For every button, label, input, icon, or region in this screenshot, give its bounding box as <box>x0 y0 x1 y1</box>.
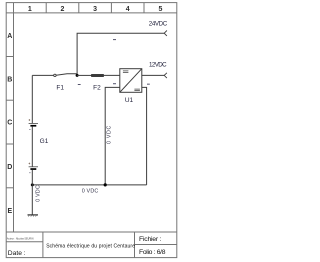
battery cell1 polarity minus <box>29 128 31 130</box>
junction dot <box>76 74 79 77</box>
wire battery to F1 <box>32 74 53 76</box>
svg-text:0 VDC: 0 VDC <box>35 185 41 202</box>
battery cell1 polarity plus <box>29 119 31 121</box>
svg-text:Folio : 6/8: Folio : 6/8 <box>139 249 166 256</box>
battery cell2 polarity minus <box>29 172 31 174</box>
svg-text:24VDC: 24VDC <box>149 21 168 28</box>
svg-text:G1: G1 <box>40 138 49 145</box>
U1 DC glyph bottom-right <box>134 89 140 91</box>
svg-text:2: 2 <box>61 6 65 13</box>
ground <box>28 215 39 217</box>
svg-text:A: A <box>7 33 12 40</box>
svg-text:4: 4 <box>126 6 130 13</box>
svg-text:0 VDC: 0 VDC <box>82 188 99 194</box>
svg-text:E: E <box>7 208 12 215</box>
wire U1 in- down <box>105 87 120 184</box>
battery cell2 polarity plus <box>29 163 31 165</box>
svg-text:Fichier :: Fichier : <box>139 236 162 243</box>
connector arrow 24VDC <box>164 31 167 36</box>
wire F2 to U1 <box>104 74 120 76</box>
svg-text:12VDC: 12VDC <box>149 61 167 68</box>
column numbers <box>28 6 163 13</box>
battery G1 cell 2 <box>29 166 38 168</box>
svg-text:Auteur : Nicolas SEURIN: Auteur : Nicolas SEURIN <box>7 237 34 240</box>
svg-text:Schéma électrique du projet Ce: Schéma électrique du projet Centaure <box>46 243 135 249</box>
junction dot bottom mid <box>104 183 107 186</box>
U1 DC glyph top-left <box>123 71 128 73</box>
svg-text:3: 3 <box>93 6 97 13</box>
net mark minus U1 left <box>113 82 116 85</box>
svg-text:F2: F2 <box>93 84 101 91</box>
connector arrow 12VDC <box>164 73 167 78</box>
wire 0VDC bottom rail <box>32 184 146 186</box>
svg-text:5: 5 <box>158 6 162 13</box>
wire U1 out+ 12VDC <box>142 74 164 76</box>
switch-fuse F1 <box>54 74 77 77</box>
net mark minus F1-F2 <box>78 83 81 86</box>
svg-text:D: D <box>7 164 12 171</box>
battery G1 cell 1 <box>29 123 38 125</box>
wire 24VDC rail <box>77 33 164 75</box>
wire U1 out- down <box>142 87 147 184</box>
row letters <box>7 33 12 215</box>
battery G1 wires <box>31 75 33 184</box>
svg-text:1: 1 <box>28 6 32 13</box>
wire to ground <box>31 185 33 215</box>
svg-text:U1: U1 <box>125 97 134 104</box>
svg-text:C: C <box>7 120 12 127</box>
svg-text:F1: F1 <box>56 84 64 91</box>
fuse F2 <box>91 74 103 76</box>
border frame <box>6 3 177 258</box>
DC-DC converter U1 <box>120 69 142 93</box>
svg-text:Date :: Date : <box>8 250 26 257</box>
junction dot bottom left <box>31 183 34 186</box>
wire junction to F2 <box>77 74 91 76</box>
svg-text:B: B <box>7 76 12 83</box>
net mark minus U1 right <box>147 83 150 86</box>
net mark minus top <box>113 38 116 41</box>
svg-text:0 VDC: 0 VDC <box>106 125 112 143</box>
